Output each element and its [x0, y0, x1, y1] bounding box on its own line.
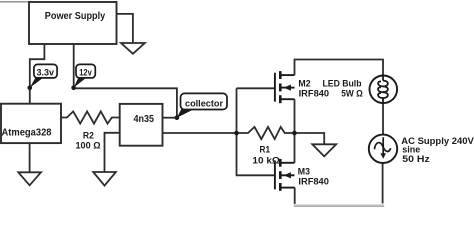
- svg-text:10 kΩ: 10 kΩ: [252, 156, 280, 167]
- svg-text:IRF840: IRF840: [299, 89, 330, 100]
- svg-text:Power Supply: Power Supply: [45, 11, 106, 22]
- svg-text:Atmega328: Atmega328: [2, 127, 52, 138]
- svg-text:IRF840: IRF840: [298, 177, 329, 188]
- svg-text:5W Ω: 5W Ω: [341, 89, 363, 100]
- svg-text:3.3v: 3.3v: [37, 67, 55, 78]
- svg-text:100 Ω: 100 Ω: [76, 140, 101, 151]
- svg-text:50 Hz: 50 Hz: [402, 154, 430, 165]
- svg-text:R1: R1: [260, 145, 271, 156]
- svg-text:12v: 12v: [79, 67, 92, 78]
- svg-text:4n35: 4n35: [134, 114, 155, 125]
- svg-text:collector: collector: [185, 99, 223, 109]
